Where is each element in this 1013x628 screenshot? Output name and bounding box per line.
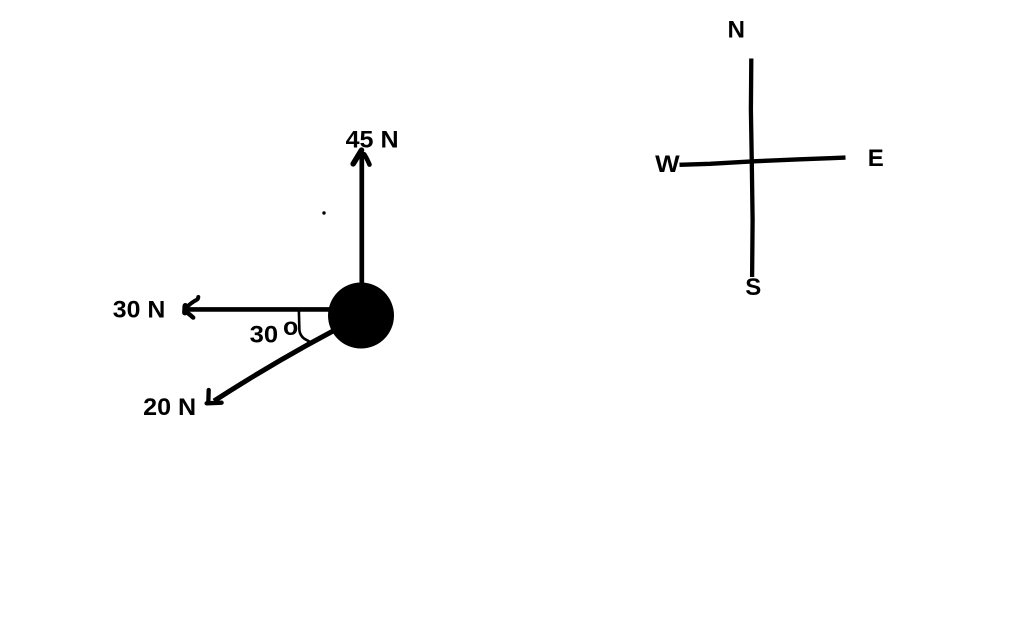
svg-text:N: N xyxy=(728,17,746,44)
angle marker (30 degrees) xyxy=(299,312,311,343)
svg-text:o: o xyxy=(283,313,298,341)
svg-text:30: 30 xyxy=(250,321,279,348)
arrowhead 30 N xyxy=(185,297,198,318)
svg-text:W: W xyxy=(655,151,680,178)
svg-text:20 N: 20 N xyxy=(143,394,196,421)
svg-text:30 N: 30 N xyxy=(113,297,166,324)
ball (object) xyxy=(328,283,394,349)
arrowhead 45 N xyxy=(353,150,369,164)
compass N-S axis (wire) xyxy=(751,59,753,278)
svg-text:45 N: 45 N xyxy=(346,127,399,154)
compass W-E axis (wire) xyxy=(680,158,846,165)
force vector 30 N shaft (wire) xyxy=(187,307,341,312)
force vector 45 N shaft (wire) xyxy=(359,152,364,290)
force vector 20 N shaft (wire) xyxy=(214,317,361,402)
svg-text:S: S xyxy=(745,274,761,301)
svg-text:E: E xyxy=(868,145,884,172)
arrowhead 20 N xyxy=(207,390,222,403)
stray dot xyxy=(322,211,325,214)
